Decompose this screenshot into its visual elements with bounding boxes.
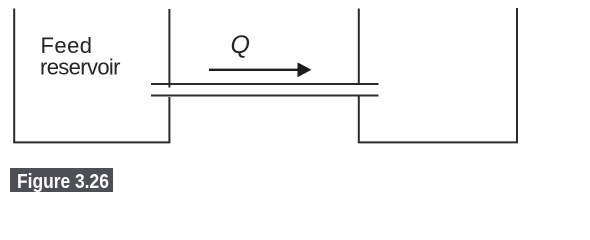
- right reservoir bottom: [358, 141, 518, 143]
- flow arrow head: [298, 62, 312, 77]
- figure caption text: Figure 3.26: [17, 172, 109, 192]
- figure caption box: [10, 168, 113, 192]
- pipe top wall: [151, 83, 379, 85]
- feed reservoir right wall upper segment: [168, 9, 170, 88]
- svg-text:Q: Q: [231, 31, 250, 59]
- right reservoir left wall upper segment: [358, 9, 360, 85]
- feed reservoir right wall lower segment: [168, 97, 170, 142]
- flow arrow shaft: [209, 69, 300, 71]
- feed reservoir left wall: [13, 9, 15, 143]
- feed reservoir bottom: [13, 141, 170, 143]
- svg-text:reservoir: reservoir: [40, 54, 121, 79]
- pipe bottom wall: [151, 95, 379, 97]
- right reservoir left wall lower segment: [358, 97, 360, 143]
- right reservoir right wall: [516, 8, 518, 142]
